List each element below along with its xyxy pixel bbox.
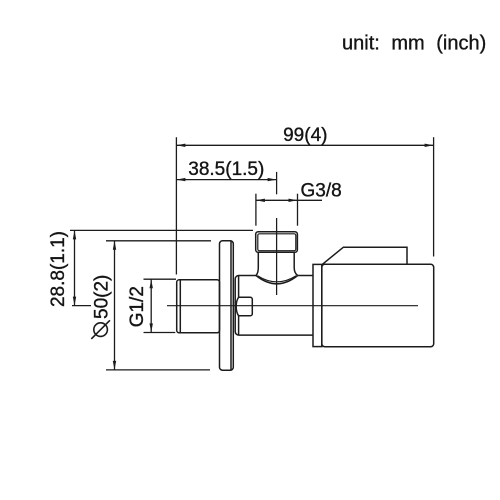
dim G3/8	[256, 180, 342, 225]
outlet centerline	[276, 172, 278, 194]
wall flange	[220, 241, 234, 370]
outlet nipple G3/8	[256, 232, 298, 253]
svg-text:50(2): 50(2)	[92, 275, 113, 319]
dim 28.8(1.1)	[48, 230, 253, 307]
handle	[322, 247, 434, 346]
packing nut	[236, 297, 252, 315]
handle collar	[313, 264, 322, 346]
inlet pipe G1/2	[177, 280, 220, 333]
svg-text:G3/8: G3/8	[301, 180, 342, 201]
dim 99(4)	[176, 125, 433, 275]
main centerline	[167, 305, 418, 307]
svg-text:99(4): 99(4)	[283, 125, 327, 146]
svg-text:unit: mm (inch): unit: mm (inch)	[342, 33, 486, 55]
svg-text:38.5(1.5): 38.5(1.5)	[188, 159, 264, 180]
dim 38.5(1.5)	[176, 159, 276, 181]
svg-text:G1/2: G1/2	[127, 286, 148, 327]
valve body	[235, 276, 313, 336]
dim D50(2)	[91, 241, 211, 370]
outlet neck and bell	[256, 252, 298, 283]
svg-text:28.8(1.1): 28.8(1.1)	[48, 231, 69, 307]
dim G1/2	[127, 279, 176, 332]
